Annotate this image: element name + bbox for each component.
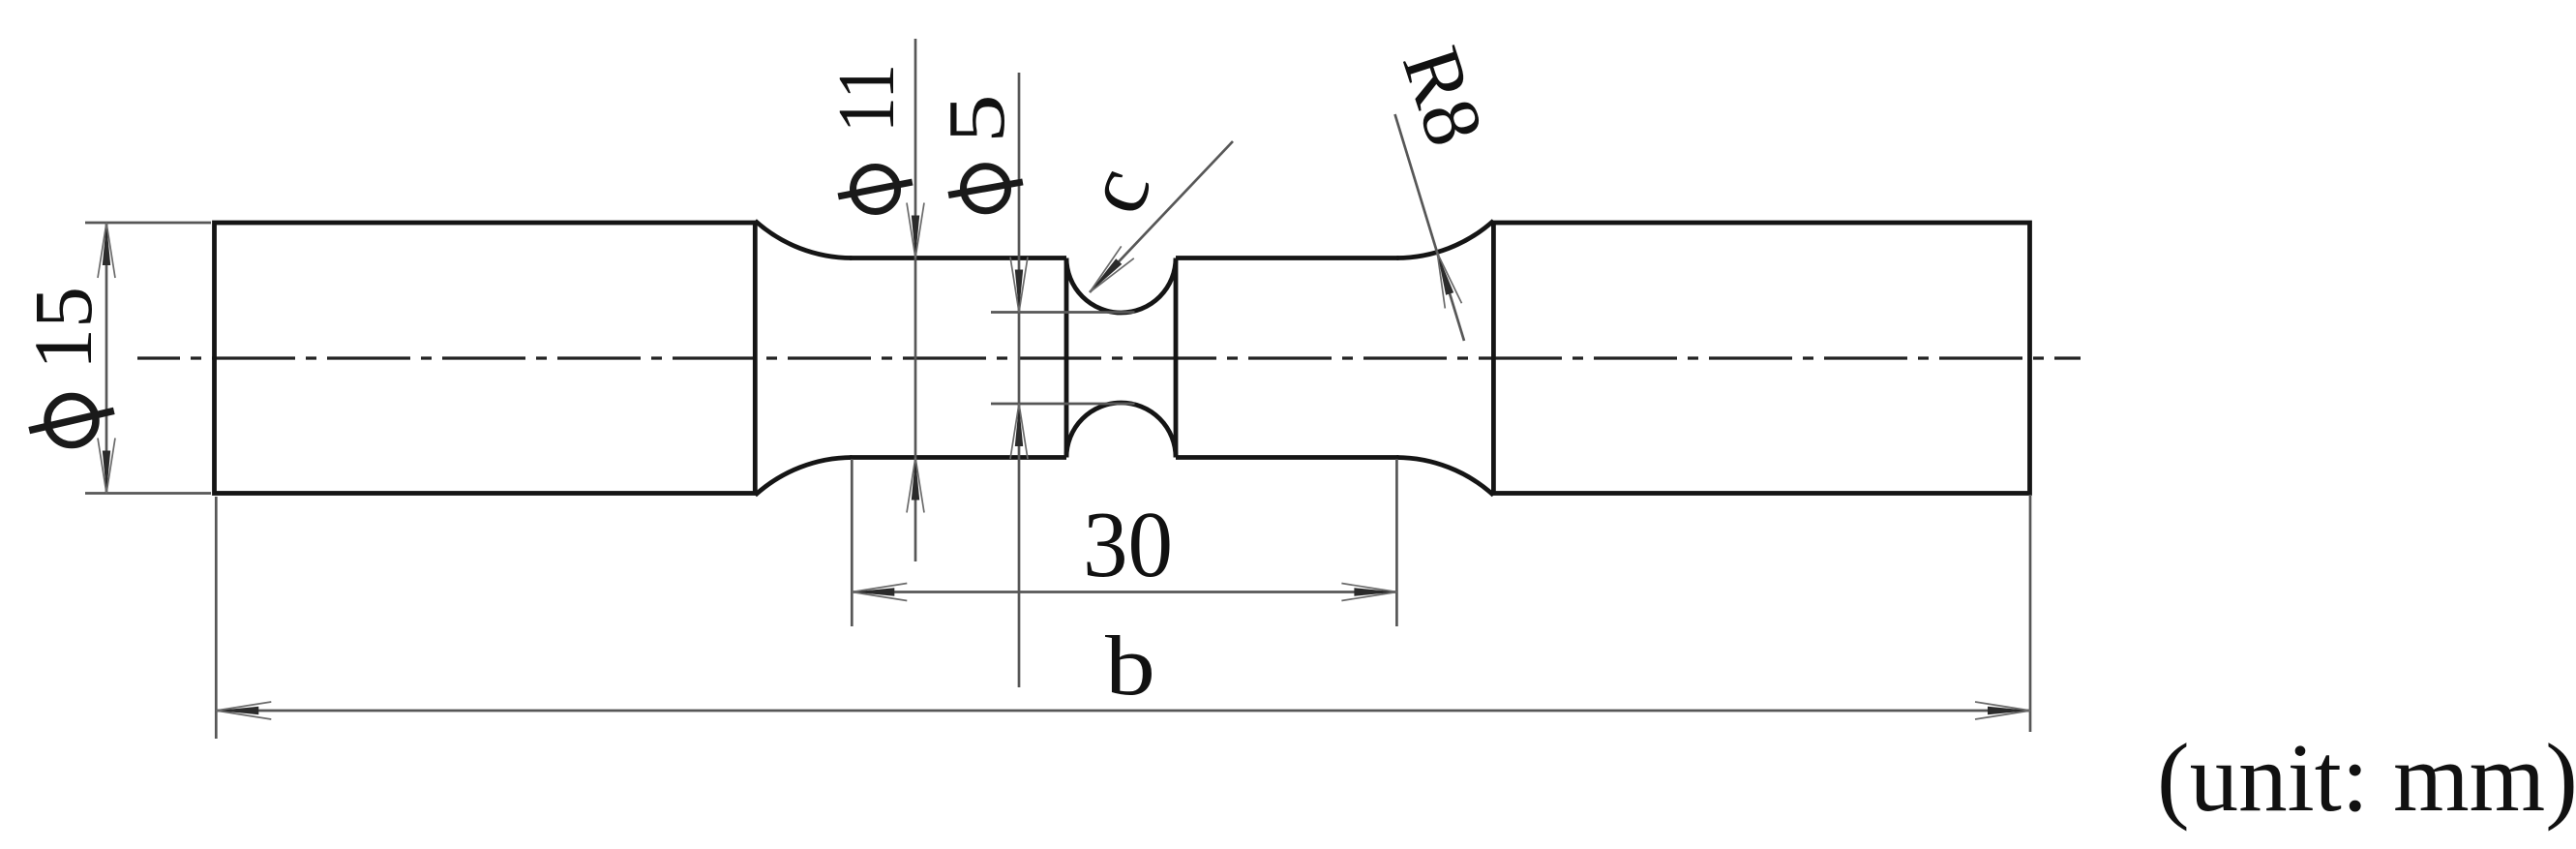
notch left edge line: [1064, 258, 1069, 458]
centerline axis: [137, 356, 2081, 359]
right fillet R8 top arc: [1396, 221, 1493, 258]
b extension line left: [215, 497, 218, 739]
b arrow right: [1988, 707, 2030, 714]
phi5 dimension line: [1018, 73, 1021, 687]
30 dimension line: [852, 591, 1396, 593]
phi15 arrow down: [103, 451, 110, 494]
svg-text:(unit: mm): (unit: mm): [2157, 723, 2576, 832]
label phi15: [47, 397, 96, 445]
phi11 arrow down to gauge top: [912, 216, 919, 258]
right fillet R8 bottom arc: [1396, 458, 1493, 496]
notch top semicircular cut radius c: [1066, 258, 1176, 314]
left fillet R8 top arc: [755, 221, 852, 258]
gauge section top edge right: [1176, 256, 1398, 260]
gauge section bottom edge left: [850, 455, 1066, 460]
specimen right grip phi15 outline: [1493, 223, 2029, 494]
phi15 extension line top: [85, 222, 211, 225]
b dimension line: [216, 710, 2030, 713]
phi5 arrow up: [1015, 404, 1023, 446]
30 arrow left: [852, 588, 894, 595]
notch right edge line: [1174, 258, 1179, 458]
gauge section top edge left: [850, 256, 1066, 260]
phi5 arrow down: [1015, 270, 1023, 313]
b extension line right: [2029, 495, 2032, 732]
notch bottom semicircular cut radius c: [1066, 403, 1176, 458]
phi11 dimension line: [914, 39, 917, 561]
svg-text:11: 11: [822, 64, 912, 133]
phi15 arrow up: [103, 223, 110, 265]
c leader arrow: [1090, 258, 1122, 292]
phi5 tick top: [991, 311, 1135, 314]
gauge section bottom edge right: [1176, 455, 1398, 460]
phi11 arrow up to gauge bottom: [912, 458, 919, 500]
30 extension line right: [1395, 459, 1398, 626]
leader line for fillet radius R8: [1395, 114, 1465, 341]
label phi5: [964, 167, 1008, 211]
svg-text:15: 15: [16, 287, 109, 370]
b arrow left: [216, 707, 258, 714]
svg-text:b: b: [1105, 618, 1155, 713]
phi15 dimension line: [105, 223, 108, 494]
left fillet R8 bottom arc: [755, 458, 852, 496]
svg-text:30: 30: [1083, 492, 1173, 597]
leader line for notch radius c: [1090, 141, 1233, 292]
30 extension line left: [851, 459, 854, 626]
specimen left grip phi15 outline: [215, 223, 756, 494]
svg-text:5: 5: [932, 94, 1022, 143]
phi5 tick bottom: [991, 403, 1135, 406]
label phi11: [854, 167, 898, 212]
R8 arrow: [1437, 253, 1453, 294]
30 arrow right: [1354, 588, 1396, 595]
phi15 extension line bottom: [85, 492, 211, 495]
